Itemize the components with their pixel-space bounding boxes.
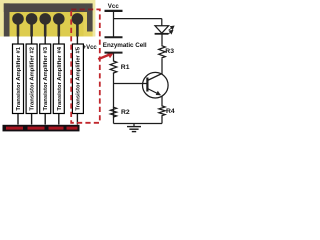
svg-text:R3: R3 — [165, 48, 174, 55]
svg-text:Vcc: Vcc — [108, 3, 120, 10]
svg-text:Transistor Amplifier #2: Transistor Amplifier #2 — [30, 46, 36, 110]
svg-text:Transistor Amplifier #4: Transistor Amplifier #4 — [57, 46, 63, 110]
svg-text:R1: R1 — [121, 64, 130, 71]
svg-text:Transistor Amplifier #3: Transistor Amplifier #3 — [43, 46, 49, 110]
svg-text:Enzymatic Cell: Enzymatic Cell — [103, 42, 147, 49]
svg-text:R2: R2 — [121, 109, 130, 116]
svg-text:+Vcc: +Vcc — [83, 45, 98, 51]
svg-text:Transistor Amplifier #5: Transistor Amplifier #5 — [75, 46, 81, 110]
svg-text:Transistor Amplifier #1: Transistor Amplifier #1 — [16, 46, 22, 110]
svg-text:R4: R4 — [166, 108, 175, 115]
